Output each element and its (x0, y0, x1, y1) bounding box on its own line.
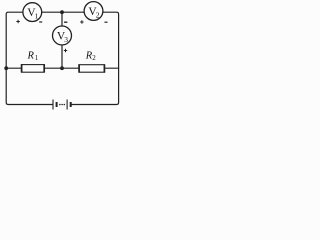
polarity - of V2 (105, 21, 108, 23)
polarity - of V1 (39, 21, 42, 23)
polarity - of V3 (64, 21, 67, 23)
resistor R2 (79, 64, 105, 72)
wire left side loop: top-left corner down to battery (6, 12, 52, 104)
polarity + of V3 (64, 49, 67, 52)
battery cell 1 short plate (56, 102, 58, 107)
wire center vertical: node A to V3 (61, 12, 63, 26)
battery cell 2 short plate (70, 102, 72, 107)
label R1 (27, 50, 39, 61)
voltmeter V3 (53, 26, 72, 45)
node C junction dot (60, 66, 64, 70)
wire middle branch: node C to R2 (62, 67, 79, 69)
svg-text:1: 1 (35, 12, 39, 21)
wire center vertical: V3 to node C (61, 45, 63, 68)
wire middle branch: node B to R1 (6, 67, 21, 69)
svg-text:2: 2 (92, 54, 96, 62)
voltmeter V2 (84, 2, 103, 21)
resistor R1 (22, 64, 45, 72)
svg-text:2: 2 (96, 11, 100, 20)
battery cell 2 long plate (66, 100, 68, 110)
polarity + of V1 (16, 20, 19, 23)
battery dots (59, 104, 65, 106)
svg-text:3: 3 (64, 35, 68, 44)
svg-text:R: R (27, 50, 35, 61)
wire top: node A to V2 (62, 11, 84, 13)
voltmeter V1 (23, 3, 42, 22)
polarity + of V2 (80, 20, 83, 23)
wire right side loop: V2 to top-right corner, down to battery (72, 12, 119, 104)
wire middle branch: R1 to node C (44, 67, 62, 69)
wire middle branch: R2 to right side (105, 67, 119, 69)
wire top: V1 to node A (42, 11, 62, 13)
label R2 (85, 50, 97, 61)
node B junction dot (4, 66, 8, 70)
svg-text:1: 1 (35, 54, 39, 62)
battery cell 1 long plate (52, 100, 54, 110)
node A junction dot (60, 10, 64, 14)
